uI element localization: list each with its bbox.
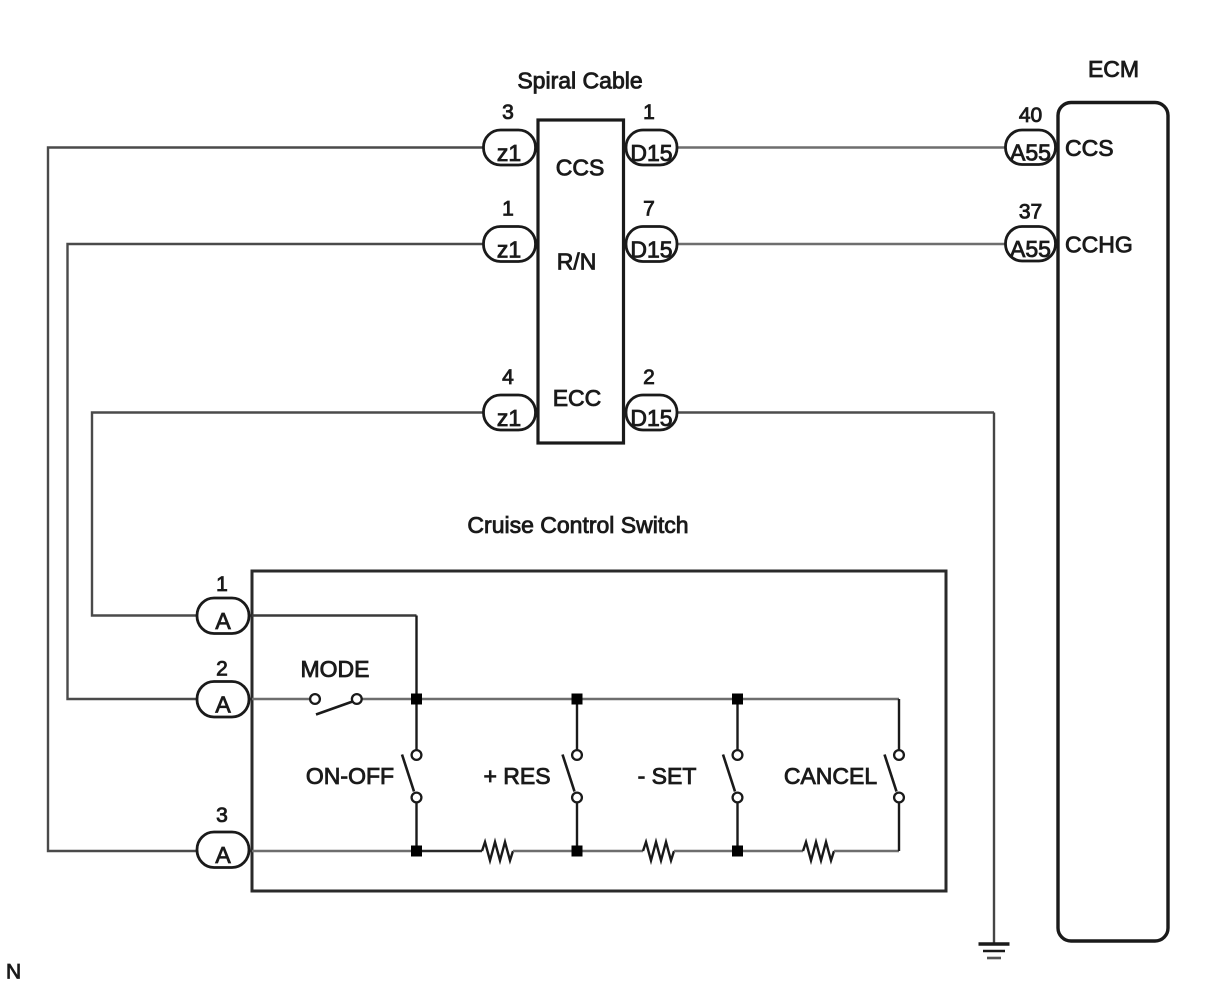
svg-text:D15: D15 xyxy=(630,237,672,263)
pin number 2 xyxy=(216,658,228,681)
wire CCHG row2 left: z1 pin1 to A pin2 xyxy=(68,244,539,699)
switch -SET contact bottom xyxy=(733,793,743,803)
svg-text:Cruise Control Switch: Cruise Control Switch xyxy=(467,512,688,538)
pin number 1 xyxy=(502,198,514,221)
svg-text:40: 40 xyxy=(1019,104,1042,127)
wire ECC right: D15 pin2 to ground xyxy=(623,411,994,413)
svg-text:2: 2 xyxy=(643,366,655,389)
svg-text:ECM: ECM xyxy=(1088,56,1139,82)
svg-text:D15: D15 xyxy=(630,405,672,431)
cruise control switch box SW1 xyxy=(252,571,946,891)
wire row A3: R3 to CANCEL branch xyxy=(834,850,899,853)
label ON-OFF xyxy=(306,763,394,789)
wire row A2: MODE right contact to CANCEL branch xyxy=(362,698,899,701)
junction row2 at +RES xyxy=(572,694,583,705)
wire row A1 inside box xyxy=(252,614,417,616)
switch MODE contact left xyxy=(310,694,320,704)
label Cruise Control Switch xyxy=(467,512,688,538)
wire vertical ON-OFF branch upper xyxy=(415,616,417,751)
wire ground drop xyxy=(993,413,995,945)
switch CANCEL lever xyxy=(885,755,897,792)
connector z1 pin 4 (row3) xyxy=(484,395,536,431)
wire vertical +RES branch upper xyxy=(576,699,578,750)
switch MODE lever xyxy=(316,702,353,715)
junction row3 at ON-OFF xyxy=(411,846,422,857)
wire row A3: R2 to R3 xyxy=(674,850,803,853)
switch +RES contact bottom xyxy=(572,793,582,803)
wire row2 right: D15 pin7 to A55 pin37 xyxy=(623,243,1058,245)
pin number 1 xyxy=(643,101,655,124)
label CCS (spiral cable) xyxy=(556,155,605,181)
switch -SET lever xyxy=(723,755,735,792)
connector z1 pin 1 (row2) xyxy=(484,227,536,263)
svg-text:R/N: R/N xyxy=(557,249,597,275)
wire vertical CANCEL branch upper xyxy=(898,699,900,750)
connector z1 pin 3 (row1) xyxy=(484,130,536,166)
note N xyxy=(6,961,21,984)
wire row A2: A oval to MODE left contact xyxy=(252,698,310,701)
svg-text:2: 2 xyxy=(216,658,228,681)
label CCHG (ECM) xyxy=(1065,232,1133,258)
svg-text:Spiral Cable: Spiral Cable xyxy=(517,68,642,94)
pin number 3 xyxy=(502,101,514,124)
resistor R3 xyxy=(803,842,834,861)
svg-text:ON-OFF: ON-OFF xyxy=(306,763,394,789)
label - SET xyxy=(638,763,697,789)
resistor R1 xyxy=(482,842,513,861)
wire CCS row1 left: z1 pin3 to left bus xyxy=(48,148,538,852)
ECM box U1 xyxy=(1058,103,1168,942)
pin number 40 xyxy=(1019,104,1042,127)
connector A55 pin 40 (row1) xyxy=(1006,130,1056,166)
label R/N (spiral cable) xyxy=(557,249,597,275)
svg-text:7: 7 xyxy=(643,198,655,221)
connector A pin 1 xyxy=(197,598,249,634)
switch CANCEL contact top xyxy=(894,750,904,760)
junction row2 at -SET xyxy=(732,694,743,705)
wire row1 right: D15 pin1 to A55 pin40 xyxy=(623,146,1058,148)
switch MODE contact right xyxy=(352,694,362,704)
label MODE xyxy=(301,656,370,682)
svg-text:CCS: CCS xyxy=(1065,135,1114,161)
switch ON-OFF lever xyxy=(402,755,414,792)
pin number 3 xyxy=(216,804,228,827)
junction row3 at +RES xyxy=(572,846,583,857)
connector A55 pin 37 (row2) xyxy=(1006,227,1056,263)
svg-text:ECC: ECC xyxy=(553,385,602,411)
svg-text:3: 3 xyxy=(216,804,228,827)
svg-text:A: A xyxy=(215,842,231,868)
svg-text:+ RES: + RES xyxy=(483,763,550,789)
connector A pin 2 xyxy=(197,682,249,718)
svg-text:A: A xyxy=(215,608,231,634)
wire row A3: junction to resistor R1 xyxy=(416,850,482,853)
svg-text:z1: z1 xyxy=(497,405,521,431)
label CCS (ECM) xyxy=(1065,135,1114,161)
svg-text:3: 3 xyxy=(502,101,514,124)
switch ON-OFF contact bottom xyxy=(412,793,422,803)
pin number 2 xyxy=(643,366,655,389)
connector D15 pin 2 (row3) xyxy=(626,395,677,431)
connector D15 pin 7 (row2) xyxy=(626,227,677,263)
wire vertical +RES branch lower xyxy=(576,803,578,852)
svg-text:CANCEL: CANCEL xyxy=(784,763,878,789)
switch +RES lever xyxy=(563,755,575,792)
svg-text:A: A xyxy=(215,692,231,718)
svg-text:A55: A55 xyxy=(1010,236,1051,262)
pin number 1 xyxy=(216,573,228,596)
label + RES xyxy=(483,763,550,789)
connector A pin 3 xyxy=(197,832,249,868)
junction row3 at -SET xyxy=(732,846,743,857)
junction row2 at ON-OFF xyxy=(411,694,422,705)
svg-text:CCHG: CCHG xyxy=(1065,232,1133,258)
label ECM xyxy=(1088,56,1139,82)
connector D15 pin 1 (row1) xyxy=(626,130,677,166)
svg-text:A55: A55 xyxy=(1010,140,1051,166)
svg-text:z1: z1 xyxy=(497,140,521,166)
wire row A3: A oval to resistor R1 xyxy=(252,850,416,853)
svg-text:CCS: CCS xyxy=(556,155,605,181)
svg-text:1: 1 xyxy=(216,573,228,596)
svg-text:4: 4 xyxy=(502,366,514,389)
ground xyxy=(979,944,1010,958)
wire vertical -SET branch lower xyxy=(736,803,738,852)
wire ECC row3 left: z1 pin4 to A pin1 xyxy=(92,413,538,616)
pin number 37 xyxy=(1019,201,1042,224)
resistor R2 xyxy=(643,842,674,861)
svg-text:z1: z1 xyxy=(497,237,521,263)
wire vertical CANCEL branch lower xyxy=(898,803,900,852)
svg-text:N: N xyxy=(6,961,21,984)
switch -SET contact top xyxy=(733,750,743,760)
svg-text:1: 1 xyxy=(643,101,655,124)
pin number 7 xyxy=(643,198,655,221)
svg-text:- SET: - SET xyxy=(638,763,697,789)
switch ON-OFF contact top xyxy=(412,750,422,760)
pin number 4 xyxy=(502,366,514,389)
label CANCEL xyxy=(784,763,878,789)
switch CANCEL contact bottom xyxy=(894,793,904,803)
wire vertical ON-OFF branch lower xyxy=(415,803,417,852)
svg-text:D15: D15 xyxy=(630,140,672,166)
label Spiral Cable xyxy=(517,68,642,94)
label ECC (spiral cable) xyxy=(553,385,602,411)
svg-text:1: 1 xyxy=(502,198,514,221)
spiral cable box xyxy=(538,120,624,443)
svg-text:37: 37 xyxy=(1019,201,1042,224)
svg-text:MODE: MODE xyxy=(301,656,370,682)
wire row A3: R1 to R2 xyxy=(513,850,643,853)
wire vertical -SET branch upper xyxy=(736,699,738,750)
switch +RES contact top xyxy=(572,750,582,760)
